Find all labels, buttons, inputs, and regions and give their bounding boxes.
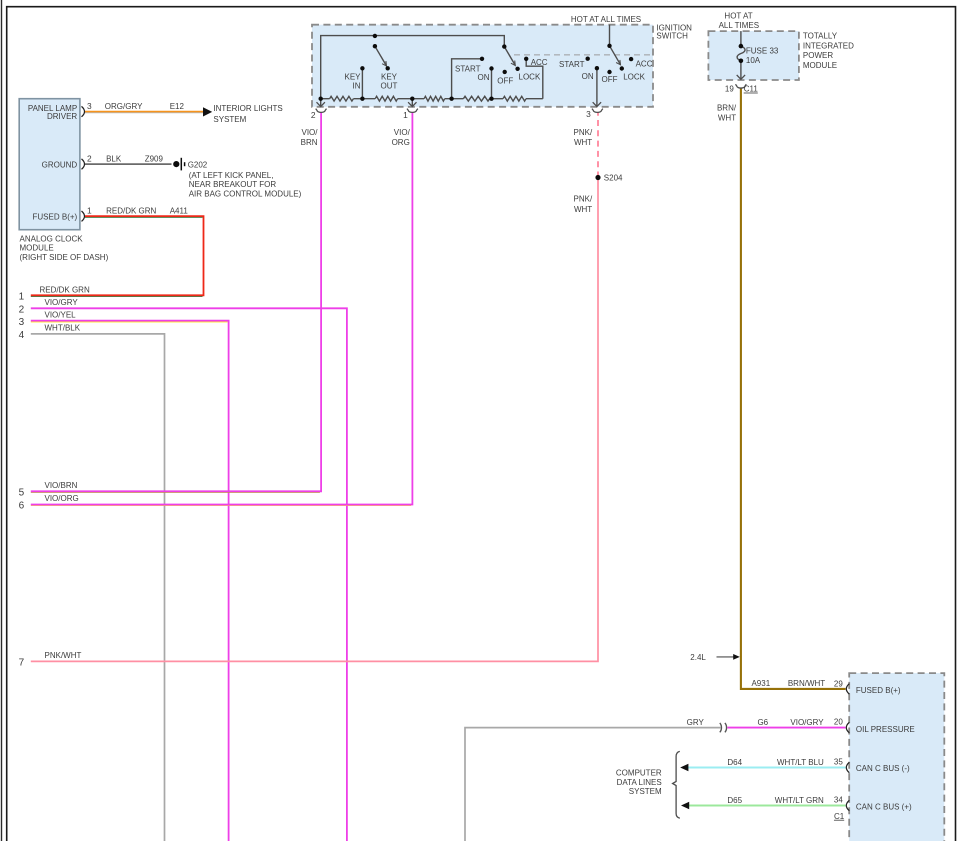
svg-text:D64: D64 xyxy=(727,758,742,767)
svg-text:(AT LEFT KICK PANEL,: (AT LEFT KICK PANEL, xyxy=(189,171,274,180)
svg-text:G6: G6 xyxy=(757,718,768,727)
svg-text:ACC: ACC xyxy=(531,58,548,67)
svg-text:FUSED B(+): FUSED B(+) xyxy=(33,213,78,222)
svg-text:HOT AT: HOT AT xyxy=(724,12,752,21)
svg-text:SYSTEM: SYSTEM xyxy=(213,115,246,124)
svg-text:INTERIOR LIGHTS: INTERIOR LIGHTS xyxy=(213,104,282,113)
svg-text:IN: IN xyxy=(353,82,361,91)
svg-text:INTEGRATED: INTEGRATED xyxy=(803,41,854,50)
svg-text:WHT: WHT xyxy=(574,205,592,214)
svg-text:OIL PRESSURE: OIL PRESSURE xyxy=(856,725,915,734)
svg-text:E12: E12 xyxy=(170,102,185,111)
svg-text:AIR BAG CONTROL MODULE): AIR BAG CONTROL MODULE) xyxy=(189,189,302,198)
svg-text:19: 19 xyxy=(725,85,734,94)
svg-text:VIO/: VIO/ xyxy=(301,128,318,137)
svg-text:ORG/GRY: ORG/GRY xyxy=(105,102,143,111)
svg-text:10A: 10A xyxy=(746,56,761,65)
svg-text:GRY: GRY xyxy=(687,718,705,727)
svg-text:CAN C BUS (-): CAN C BUS (-) xyxy=(856,764,910,773)
svg-text:OFF: OFF xyxy=(602,75,618,84)
svg-text:35: 35 xyxy=(834,757,843,766)
svg-text:VIO/: VIO/ xyxy=(394,128,411,137)
svg-text:WHT/BLK: WHT/BLK xyxy=(45,324,81,333)
svg-text:S204: S204 xyxy=(604,174,623,183)
svg-text:ON: ON xyxy=(478,73,490,82)
svg-text:20: 20 xyxy=(834,718,843,727)
svg-text:GROUND: GROUND xyxy=(42,160,78,169)
svg-text:ON: ON xyxy=(582,72,594,81)
svg-text:ALL TIMES: ALL TIMES xyxy=(719,21,759,30)
svg-text:1: 1 xyxy=(19,291,25,302)
svg-text:SWITCH: SWITCH xyxy=(656,32,688,41)
svg-text:2: 2 xyxy=(19,304,25,315)
svg-text:A931: A931 xyxy=(751,679,770,688)
svg-text:3: 3 xyxy=(586,109,591,119)
svg-text:VIO/GRY: VIO/GRY xyxy=(790,718,824,727)
svg-text:29: 29 xyxy=(834,679,843,688)
svg-text:(RIGHT SIDE OF DASH): (RIGHT SIDE OF DASH) xyxy=(20,253,109,262)
svg-text:FUSE 33: FUSE 33 xyxy=(746,46,779,55)
svg-text:4: 4 xyxy=(19,330,25,341)
svg-text:BRN/WHT: BRN/WHT xyxy=(788,679,825,688)
svg-text:G202: G202 xyxy=(188,161,208,170)
svg-text:VIO/BRN: VIO/BRN xyxy=(45,481,78,490)
svg-text:PNK/: PNK/ xyxy=(574,195,593,204)
svg-text:1: 1 xyxy=(87,206,92,216)
svg-text:RED/DK GRN: RED/DK GRN xyxy=(40,285,90,294)
svg-text:COMPUTER: COMPUTER xyxy=(616,769,662,778)
svg-text:7: 7 xyxy=(19,658,25,669)
svg-text:DRIVER: DRIVER xyxy=(47,112,77,121)
svg-text:OFF: OFF xyxy=(497,76,513,85)
svg-text:WHT/LT BLU: WHT/LT BLU xyxy=(777,758,824,767)
svg-text:2: 2 xyxy=(87,154,92,164)
svg-text:A411: A411 xyxy=(170,206,189,215)
svg-text:Z909: Z909 xyxy=(145,154,164,163)
svg-text:KEY: KEY xyxy=(344,72,361,81)
svg-text:PNK/WHT: PNK/WHT xyxy=(45,651,82,660)
svg-text:MODULE: MODULE xyxy=(803,61,837,70)
svg-text:3: 3 xyxy=(19,317,25,328)
svg-text:LOCK: LOCK xyxy=(623,72,645,81)
svg-text:34: 34 xyxy=(834,795,843,804)
svg-text:ACC: ACC xyxy=(636,59,653,68)
svg-text:BRN: BRN xyxy=(301,138,318,147)
svg-text:HOT AT ALL TIMES: HOT AT ALL TIMES xyxy=(571,15,641,24)
svg-text:TOTALLY: TOTALLY xyxy=(803,31,838,40)
svg-text:2: 2 xyxy=(311,110,316,120)
svg-text:ANALOG CLOCK: ANALOG CLOCK xyxy=(20,235,84,244)
svg-text:VIO/ORG: VIO/ORG xyxy=(45,494,79,503)
svg-text:BLK: BLK xyxy=(106,154,122,163)
svg-text:D65: D65 xyxy=(727,796,742,805)
svg-text:WHT: WHT xyxy=(718,113,736,122)
svg-text:LOCK: LOCK xyxy=(519,73,541,82)
svg-text:C11: C11 xyxy=(744,85,759,94)
svg-text:3: 3 xyxy=(87,101,92,111)
svg-text:C1: C1 xyxy=(834,812,845,821)
svg-text:1: 1 xyxy=(403,110,408,120)
svg-text:RED/DK GRN: RED/DK GRN xyxy=(106,206,156,215)
svg-text:MODULE: MODULE xyxy=(20,243,54,252)
svg-text:NEAR BREAKOUT FOR: NEAR BREAKOUT FOR xyxy=(189,180,277,189)
svg-text:KEY: KEY xyxy=(381,72,398,81)
svg-text:VIO/YEL: VIO/YEL xyxy=(45,310,77,319)
svg-text:5: 5 xyxy=(19,487,25,498)
svg-text:POWER: POWER xyxy=(803,51,833,60)
svg-text:DATA LINES: DATA LINES xyxy=(617,778,662,787)
svg-text:WHT/LT GRN: WHT/LT GRN xyxy=(775,796,824,805)
svg-text:FUSED B(+): FUSED B(+) xyxy=(856,686,901,695)
svg-text:BRN/: BRN/ xyxy=(717,104,737,113)
svg-text:PNK/: PNK/ xyxy=(574,128,593,137)
svg-text:6: 6 xyxy=(19,501,25,512)
svg-text:2.4L: 2.4L xyxy=(690,653,706,662)
svg-text:START: START xyxy=(559,60,585,69)
svg-text:CAN C BUS (+): CAN C BUS (+) xyxy=(856,803,912,812)
svg-text:VIO/GRY: VIO/GRY xyxy=(45,298,79,307)
svg-text:OUT: OUT xyxy=(381,82,398,91)
svg-text:WHT: WHT xyxy=(574,138,592,147)
svg-text:ORG: ORG xyxy=(392,138,410,147)
svg-text:SYSTEM: SYSTEM xyxy=(629,787,662,796)
